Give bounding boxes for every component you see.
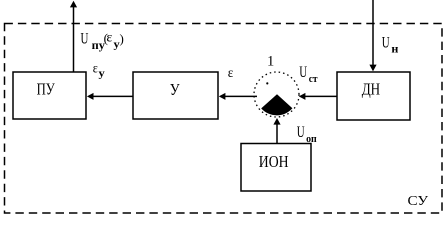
- svg-text:U: U: [81, 31, 89, 48]
- svg-text:U: U: [382, 35, 390, 52]
- svg-text:н: н: [391, 43, 398, 55]
- svg-text:ДН: ДН: [362, 80, 380, 99]
- svg-text:): ): [120, 31, 124, 46]
- svg-text:1: 1: [267, 54, 274, 70]
- svg-text:у: у: [99, 68, 105, 79]
- svg-text:ε: ε: [93, 62, 98, 77]
- svg-text:ε: ε: [106, 30, 112, 45]
- svg-text:ε: ε: [228, 66, 234, 81]
- svg-text:ст: ст: [309, 73, 318, 85]
- svg-text:U: U: [299, 64, 307, 81]
- svg-text:ПУ: ПУ: [37, 80, 56, 99]
- svg-text:СУ: СУ: [408, 194, 429, 209]
- svg-text:У: У: [170, 80, 181, 99]
- svg-text:U: U: [297, 124, 305, 141]
- svg-text:оп: оп: [306, 133, 317, 145]
- svg-text:ИОН: ИОН: [259, 152, 289, 171]
